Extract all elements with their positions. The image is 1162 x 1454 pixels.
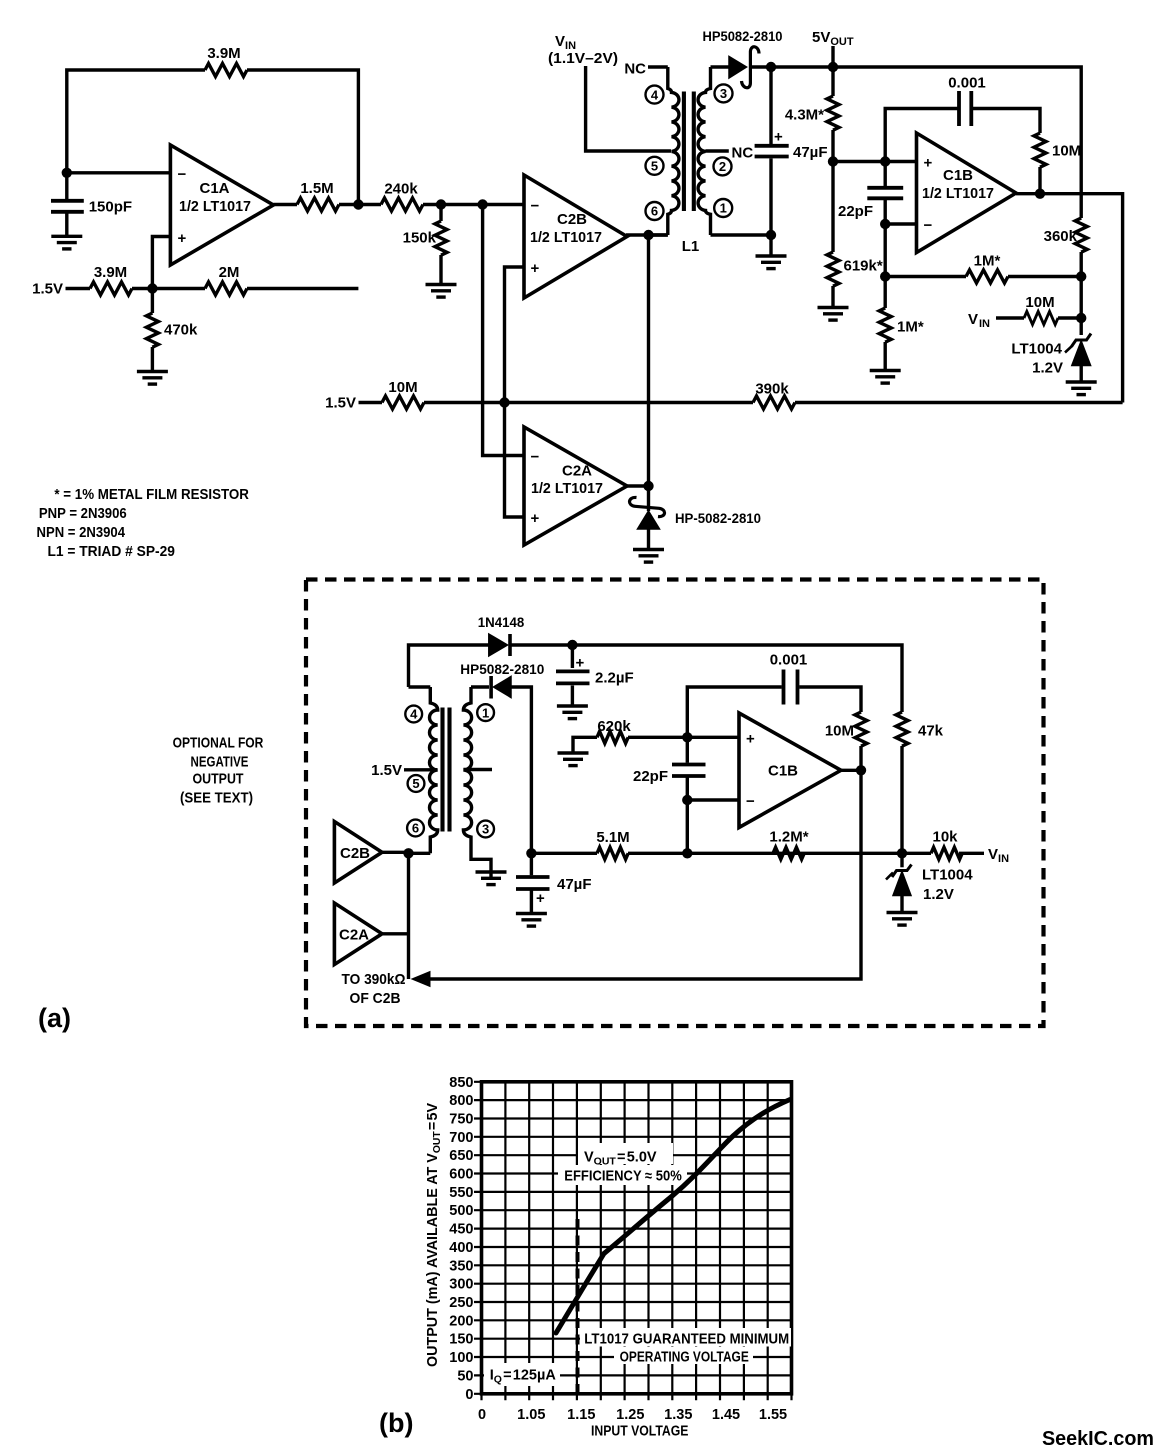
wire NC stub to L1 pin 4 xyxy=(648,65,668,68)
svg-text:3.9M: 3.9M xyxy=(207,45,240,62)
svg-text:(b): (b) xyxy=(379,1408,413,1438)
svg-text:1.35: 1.35 xyxy=(664,1407,692,1423)
svg-text:(a): (a) xyxy=(38,1003,71,1033)
capacitor 22pF (negative) xyxy=(686,737,689,800)
node C2A output xyxy=(643,481,653,491)
op-amp C1B (negative) xyxy=(739,713,841,828)
zener LT1004 1.2V (negative) xyxy=(900,853,903,867)
svg-text:240k: 240k xyxy=(384,181,418,198)
transformer L1 core xyxy=(684,92,694,212)
wire down to arrow node xyxy=(407,853,410,979)
svg-text:+: + xyxy=(531,260,540,277)
resistor 150k xyxy=(439,205,442,285)
graph border xyxy=(482,1082,792,1394)
pin 6 xyxy=(646,202,664,220)
dashed option box xyxy=(306,580,1044,1027)
text mask VOUT xyxy=(578,1143,673,1164)
svg-text:+: + xyxy=(536,890,545,907)
op-amp C2B (reference) xyxy=(334,822,382,884)
svg-text:0: 0 xyxy=(478,1407,486,1423)
node C1B output xyxy=(856,765,866,775)
node C2B output xyxy=(403,848,413,858)
svg-text:390k: 390k xyxy=(755,381,789,398)
svg-text:+: + xyxy=(924,155,933,172)
svg-text:1.5V: 1.5V xyxy=(325,395,356,412)
svg-text:OPERATING VOLTAGE: OPERATING VOLTAGE xyxy=(620,1350,749,1366)
wire V_IN to L1 pin 5 tap xyxy=(586,66,671,151)
svg-text:V: V xyxy=(968,311,978,328)
svg-text:550: 550 xyxy=(449,1185,473,1201)
wire C2A output xyxy=(381,932,409,935)
arrowhead (to 390k) xyxy=(411,971,431,988)
svg-text:+: + xyxy=(746,730,755,747)
wire C1A output xyxy=(273,203,358,206)
wire diode to negative output node xyxy=(511,687,531,853)
svg-text:5.1M: 5.1M xyxy=(596,829,629,846)
node C1B minus junction xyxy=(682,795,692,805)
capacitor 47uF (output) xyxy=(769,67,772,235)
svg-text:L1 = TRIAD # SP-29: L1 = TRIAD # SP-29 xyxy=(48,543,175,560)
svg-text:NC: NC xyxy=(732,145,754,162)
resistor 2M xyxy=(205,282,247,295)
ground (150k) xyxy=(426,285,457,298)
wire C1B output xyxy=(840,769,861,772)
svg-text:47µF: 47µF xyxy=(557,876,592,893)
svg-text:C1A: C1A xyxy=(199,180,229,197)
svg-text:1/2 LT1017: 1/2 LT1017 xyxy=(922,185,994,202)
svg-text:C2B: C2B xyxy=(557,211,587,228)
wire 1.5V 10M 390k row xyxy=(359,401,1123,404)
resistor 1M* (vertical) xyxy=(884,277,887,371)
svg-text:IN: IN xyxy=(979,318,990,330)
transformer T2 secondary winding + pin3 ground leg xyxy=(463,687,491,878)
node C1B plus branch xyxy=(880,156,890,166)
resistor 620k xyxy=(558,753,589,766)
svg-text:5: 5 xyxy=(412,776,419,791)
svg-text:1M*: 1M* xyxy=(897,319,924,336)
svg-text:OF C2B: OF C2B xyxy=(350,990,401,1007)
svg-text:LT1017 GUARANTEED MINIMUM: LT1017 GUARANTEED MINIMUM xyxy=(584,1332,789,1348)
capacitor 22pF xyxy=(884,162,887,225)
svg-text:+: + xyxy=(576,655,585,672)
svg-text:6: 6 xyxy=(412,821,419,836)
svg-text:1: 1 xyxy=(720,201,727,216)
node 5Vout xyxy=(828,62,838,72)
svg-text:150: 150 xyxy=(449,1332,473,1348)
pin 4 xyxy=(646,86,664,104)
op-amp C2A (reference) xyxy=(334,903,382,965)
node 240k/150k junction xyxy=(436,199,446,209)
diode HP5082-2810 (negative rectifier) xyxy=(489,676,493,699)
svg-text:300: 300 xyxy=(449,1277,473,1293)
pin 1 xyxy=(477,704,494,721)
node C1A output xyxy=(353,199,363,209)
resistor 5.1M xyxy=(597,847,628,859)
svg-text:150k: 150k xyxy=(403,230,437,247)
node 1M feedback left xyxy=(880,271,890,281)
wire C2B output down to C2A output xyxy=(647,235,650,486)
svg-text:400: 400 xyxy=(449,1240,473,1256)
ground (LT1004) xyxy=(1066,382,1097,395)
svg-text:800: 800 xyxy=(449,1093,473,1109)
svg-text:−: − xyxy=(924,217,933,234)
svg-text:C1B: C1B xyxy=(768,763,798,780)
wire divider to C1B plus xyxy=(833,160,917,163)
svg-text:450: 450 xyxy=(449,1222,473,1238)
op-amp C1A 1/2 LT1017 xyxy=(170,145,273,265)
capacitor 150pF xyxy=(65,173,68,237)
svg-text:1: 1 xyxy=(482,705,489,720)
pin 1 xyxy=(714,199,732,217)
svg-text:2: 2 xyxy=(719,159,726,174)
graph grid xyxy=(482,1082,792,1394)
resistor 10k xyxy=(931,847,962,859)
pin 3 xyxy=(715,84,733,102)
svg-text:C2A: C2A xyxy=(562,463,592,480)
svg-text:0.001: 0.001 xyxy=(770,652,808,669)
ground (150pF) xyxy=(51,236,82,249)
svg-text:4: 4 xyxy=(410,707,418,722)
node C1B output xyxy=(1035,189,1045,199)
dashed line LT1017 minimum voltage xyxy=(576,1219,580,1394)
resistor 360k xyxy=(1075,218,1087,252)
svg-text:3.9M: 3.9M xyxy=(94,264,127,281)
svg-text:L1: L1 xyxy=(682,238,700,255)
wire VIN row xyxy=(531,852,984,855)
pin 5 xyxy=(646,157,664,175)
svg-text:250: 250 xyxy=(449,1295,473,1311)
svg-text:TO 390kΩ: TO 390kΩ xyxy=(342,971,406,988)
resistor 10M (negative feedback) xyxy=(855,712,867,746)
svg-text:NEGATIVE: NEGATIVE xyxy=(191,754,249,771)
ground (470k) xyxy=(137,372,168,385)
wire 1.5V row xyxy=(66,287,359,290)
resistor 1.5M xyxy=(297,198,339,211)
svg-text:LT1004: LT1004 xyxy=(1011,341,1062,358)
svg-text:2.2µF: 2.2µF xyxy=(595,670,634,687)
svg-text:+: + xyxy=(531,510,540,527)
svg-text:−: − xyxy=(531,449,540,466)
wire C2B plus to C2A plus chain xyxy=(505,267,525,517)
svg-text:1.05: 1.05 xyxy=(517,1407,545,1423)
resistor 10M (1.5V row) xyxy=(382,396,424,409)
svg-text:−: − xyxy=(531,198,540,215)
svg-text:1.15: 1.15 xyxy=(567,1407,595,1423)
transformer L1 primary winding xyxy=(668,67,679,235)
svg-text:HP5082-2810: HP5082-2810 xyxy=(460,662,544,677)
svg-text:PNP = 2N3906: PNP = 2N3906 xyxy=(39,505,127,522)
zener LT1004 1.2V xyxy=(1079,318,1082,335)
pin 4 xyxy=(405,706,422,723)
resistor 4.3M* xyxy=(831,67,834,162)
svg-text:1M*: 1M* xyxy=(974,253,1001,270)
svg-text:EFFICIENCY ≈ 50%: EFFICIENCY ≈ 50% xyxy=(564,1169,682,1185)
wire C2B output to T2 pin 6 xyxy=(381,852,430,853)
node negative output / 47uF xyxy=(526,848,536,858)
node 2.2uF junction xyxy=(567,640,577,650)
svg-text:1.2M*: 1.2M* xyxy=(769,829,808,846)
wire to ground xyxy=(769,235,772,256)
svg-text:1.25: 1.25 xyxy=(616,1407,644,1423)
svg-text:+: + xyxy=(774,129,783,146)
svg-text:0: 0 xyxy=(465,1387,473,1403)
wire transformer T2 top left xyxy=(409,685,431,688)
transformer T2 core xyxy=(443,708,450,832)
transformer T2 primary winding xyxy=(429,687,437,853)
node 47k/LT1004 junction xyxy=(897,848,907,858)
wire C1B output xyxy=(1016,194,1123,403)
wire T2 pin 1 to diode xyxy=(471,685,489,688)
wire 240k node to C2A minus xyxy=(483,205,524,456)
svg-text:1/2 LT1017: 1/2 LT1017 xyxy=(530,229,602,246)
wire C1B minus input xyxy=(885,224,916,277)
capacitor 0.001 (C1B feedback) xyxy=(885,109,1040,162)
wire C1A minus input xyxy=(67,171,171,174)
wire C1B minus input xyxy=(687,800,739,853)
svg-text:100: 100 xyxy=(449,1350,473,1366)
wire L1 pin 2 NC stub xyxy=(706,149,729,152)
resistor 10M (VIN) xyxy=(1024,312,1058,325)
wire L1 pin 1 to ground node xyxy=(711,233,772,236)
svg-text:−: − xyxy=(178,166,187,183)
svg-text:750: 750 xyxy=(449,1112,473,1128)
svg-text:1.5M: 1.5M xyxy=(300,180,333,197)
svg-text:47k: 47k xyxy=(918,723,944,740)
resistor 1M* (horizontal) xyxy=(885,275,1081,278)
svg-text:2M: 2M xyxy=(219,264,240,281)
svg-text:500: 500 xyxy=(449,1203,473,1219)
ground (T2 pin 3) xyxy=(476,872,507,885)
node C1A plus branch xyxy=(147,283,157,293)
pin 3 xyxy=(477,821,494,838)
diode 1N4148 xyxy=(489,634,508,656)
svg-text:3: 3 xyxy=(720,86,727,101)
node C1B plus junction xyxy=(682,732,692,742)
svg-text:10k: 10k xyxy=(932,829,958,846)
op-amp C1B 1/2 LT1017 xyxy=(917,133,1017,253)
wire VIN 10M row xyxy=(996,316,1081,319)
graph axis ticks xyxy=(474,1082,792,1400)
svg-text:600: 600 xyxy=(449,1167,473,1183)
wire T2 pin 5 tap xyxy=(404,768,437,771)
ground (2.2uF) xyxy=(557,706,588,719)
wire C1A plus input xyxy=(152,237,170,289)
svg-text:50: 50 xyxy=(457,1368,473,1384)
svg-text:NPN = 2N3904: NPN = 2N3904 xyxy=(37,524,126,541)
resistor 240k xyxy=(381,198,423,211)
svg-text:NC: NC xyxy=(624,61,646,78)
capacitor 47uF (negative) xyxy=(530,853,533,913)
svg-text:SeekIC.com: SeekIC.com xyxy=(1042,1428,1154,1450)
svg-text:22pF: 22pF xyxy=(838,203,873,220)
wire C2A output xyxy=(626,484,649,487)
diode HP5082-2810 (rectifier) xyxy=(729,57,747,79)
svg-text:470k: 470k xyxy=(164,322,198,339)
svg-text:1.5V: 1.5V xyxy=(32,281,63,298)
svg-text:5: 5 xyxy=(651,159,658,174)
svg-text:10M: 10M xyxy=(1025,294,1054,311)
svg-text:OUTPUT: OUTPUT xyxy=(193,771,244,788)
node 1M/360k junction xyxy=(1076,271,1086,281)
svg-text:1.5V: 1.5V xyxy=(371,762,402,779)
svg-text:1/2 LT1017: 1/2 LT1017 xyxy=(179,198,251,215)
svg-text:−: − xyxy=(746,793,755,810)
svg-text:150pF: 150pF xyxy=(89,199,132,216)
resistor 619k* xyxy=(831,162,834,308)
resistor 1.2M* xyxy=(773,847,804,859)
svg-text:HP5082-2810: HP5082-2810 xyxy=(703,29,783,44)
svg-text:4.3M*: 4.3M* xyxy=(785,107,824,124)
transformer L1 secondary winding xyxy=(698,67,710,235)
wire T2 pin 2 stub xyxy=(463,768,492,771)
svg-text:350: 350 xyxy=(449,1258,473,1274)
resistor 3.9M (lower) xyxy=(90,282,132,295)
resistor 470k xyxy=(151,289,154,372)
resistor 47k xyxy=(896,712,908,746)
svg-text:1.55: 1.55 xyxy=(759,1407,787,1423)
svg-text:OPTIONAL FOR: OPTIONAL FOR xyxy=(173,735,264,752)
wire top feedback loop of C1A xyxy=(67,70,359,205)
capacitor 2.2uF xyxy=(571,645,574,706)
svg-text:C2A: C2A xyxy=(339,927,369,944)
svg-text:200: 200 xyxy=(449,1313,473,1329)
svg-text:1N4148: 1N4148 xyxy=(478,615,525,630)
svg-text:+: + xyxy=(178,230,187,247)
node C2B output xyxy=(643,230,653,240)
svg-text:C1B: C1B xyxy=(943,167,973,184)
node 4.3M/619k divider xyxy=(828,156,838,166)
graph curve xyxy=(556,1100,790,1334)
wire feedback arrow row xyxy=(428,770,861,979)
wire to 240k xyxy=(358,203,524,206)
pin 2 xyxy=(714,157,732,175)
resistor 10M (C1B feedback) xyxy=(1034,133,1046,167)
svg-text:INPUT VOLTAGE: INPUT VOLTAGE xyxy=(591,1424,689,1440)
svg-text:4: 4 xyxy=(651,87,659,102)
wire 5Vout stem xyxy=(831,46,834,67)
svg-text:1.45: 1.45 xyxy=(712,1407,740,1423)
op-amp C2B 1/2 LT1017 xyxy=(524,175,627,298)
svg-text:619k*: 619k* xyxy=(844,258,883,275)
svg-text:1/2 LT1017: 1/2 LT1017 xyxy=(531,480,603,497)
svg-text:HP-5082-2810: HP-5082-2810 xyxy=(675,511,761,526)
pin 6 xyxy=(407,820,424,837)
ground (619k) xyxy=(818,308,849,321)
svg-text:0.001: 0.001 xyxy=(948,75,986,92)
svg-text:22pF: 22pF xyxy=(633,768,668,785)
ground (47uF) xyxy=(756,256,787,269)
svg-text:(SEE TEXT): (SEE TEXT) xyxy=(180,790,253,807)
resistor 3.9M (C1A feedback) xyxy=(205,64,247,77)
svg-text:* = 1% METAL FILM RESISTOR: * = 1% METAL FILM RESISTOR xyxy=(54,486,249,503)
wire diode to 5V out xyxy=(750,67,1081,218)
capacitor 0.001 (negative feedback) xyxy=(687,687,861,737)
svg-text:700: 700 xyxy=(449,1130,473,1146)
node 22pF/1.2M junction xyxy=(682,848,692,858)
node 47uF top xyxy=(766,62,776,72)
svg-text:C2B: C2B xyxy=(340,845,370,862)
ground (C2A diode) xyxy=(633,550,664,563)
svg-text:3: 3 xyxy=(482,822,489,837)
svg-text:10M: 10M xyxy=(825,723,854,740)
op-amp C2A 1/2 LT1017 xyxy=(524,427,627,545)
svg-text:360k: 360k xyxy=(1044,228,1078,245)
node LT1004 xyxy=(1076,313,1086,323)
node C1B minus xyxy=(880,219,890,229)
svg-text:LT1004: LT1004 xyxy=(922,867,973,884)
ground (LT1004 neg) xyxy=(887,913,918,926)
diode HP-5082-2810 (C2A clamp) xyxy=(647,486,650,511)
svg-text:10M: 10M xyxy=(388,379,417,396)
wire L1 pin 3 to diode xyxy=(711,65,730,68)
node pin1/47uF xyxy=(766,230,776,240)
svg-text:1.2V: 1.2V xyxy=(1032,360,1063,377)
node C2A plus bias junction xyxy=(499,397,509,407)
svg-text:850: 850 xyxy=(449,1075,473,1091)
wire 1N4148 anode row xyxy=(409,645,903,712)
wire L1 pin 6 to C2B output xyxy=(650,233,668,236)
ground (47uF neg) xyxy=(516,914,547,927)
pin 5 xyxy=(408,775,425,792)
svg-text:10M: 10M xyxy=(1052,143,1081,160)
ground (1M) xyxy=(870,371,901,384)
svg-text:650: 650 xyxy=(449,1148,473,1164)
svg-text:1.2V: 1.2V xyxy=(923,886,954,903)
svg-text:620k: 620k xyxy=(597,718,631,735)
svg-text:6: 6 xyxy=(651,204,658,219)
node C1A inverting input xyxy=(62,168,72,178)
wire C2B output xyxy=(626,233,668,236)
svg-text:(1.1V–2V): (1.1V–2V) xyxy=(548,50,618,67)
resistor 390k xyxy=(753,396,795,409)
node C2B minus branch xyxy=(477,199,487,209)
svg-text:47µF: 47µF xyxy=(793,144,828,161)
